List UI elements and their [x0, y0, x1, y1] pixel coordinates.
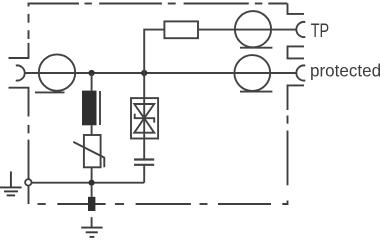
wire: TP branch up and to resistor — [144, 30, 164, 73]
ground symbol (left, outside border) — [0, 171, 22, 195]
varistor RV (box) — [84, 135, 101, 167]
gas discharge tube side electrode line — [99, 91, 101, 125]
decoupling element base line (left) — [35, 91, 65, 93]
label protected — [310, 60, 380, 80]
border left side with terminal notch — [9, 3, 29, 204]
wire: resistor to TP terminal — [198, 29, 297, 31]
protected terminal arc — [296, 65, 305, 80]
node: junction on main line (GDT branch) — [89, 70, 95, 76]
wire: GDT to varistor — [91, 125, 93, 135]
wire: main protected line — [25, 72, 297, 74]
gas discharge tube F1 (filled block) — [82, 91, 97, 126]
border top (dash-dot) — [29, 3, 288, 5]
TP terminal arc — [296, 22, 305, 37]
ground symbol (bottom) — [81, 228, 102, 237]
decoupling element circle (left) — [39, 54, 75, 90]
input terminal arc (left) — [16, 65, 25, 80]
suppressor diode bottom triangle — [134, 118, 154, 133]
wire: stub below feed-through — [91, 217, 93, 227]
PE feed-through terminal (open circle on border) — [25, 179, 31, 185]
wire: earth bus horizontal — [32, 182, 145, 184]
node: earth junction — [89, 180, 95, 186]
label TP — [311, 19, 329, 42]
border right side with TP + protected notches — [288, 4, 305, 186]
wire: TVS branch vertical through box — [143, 73, 145, 159]
capacitor C plates — [134, 158, 154, 160]
suppressor diode box — [131, 98, 158, 138]
wire: capacitor to earth line — [143, 165, 145, 183]
decoupling element circle (protected) — [234, 55, 270, 91]
wire: GDT branch vertical — [91, 73, 93, 91]
varistor diagonal stroke with tail — [73, 142, 104, 167]
earth feed-through block on bottom border — [91, 186, 93, 197]
resistor R (test point branch) — [164, 21, 198, 38]
suppressor diode zener bar with hooks — [135, 114, 155, 123]
decoupling element base line (TP) — [240, 47, 272, 49]
svg-text:protected: protected — [310, 60, 380, 80]
border bottom (dash-dot) — [38, 201, 288, 205]
suppressor diode top triangle — [134, 104, 154, 118]
wire: varistor to earth junction — [91, 167, 93, 182]
node: junction on main line (TVS/TP branch) — [141, 70, 147, 76]
svg-text:TP: TP — [311, 19, 329, 42]
decoupling element base line (protected) — [240, 91, 272, 93]
decoupling element circle (TP) — [235, 11, 271, 47]
